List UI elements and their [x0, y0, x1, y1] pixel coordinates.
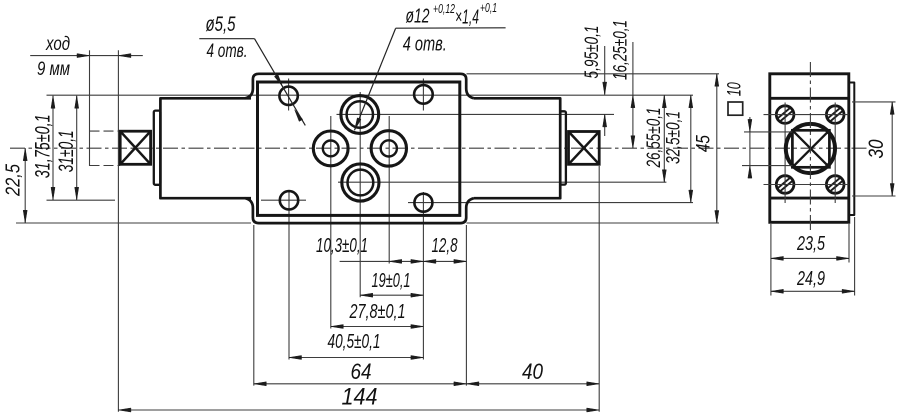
svg-text:4 отв.: 4 отв. [403, 34, 447, 56]
svg-text:31±0,1: 31±0,1 [55, 130, 78, 172]
svg-text:40,5±0,1: 40,5±0,1 [328, 331, 381, 353]
svg-text:144: 144 [342, 384, 378, 411]
svg-text:32,5±0,1: 32,5±0,1 [663, 111, 685, 164]
svg-text:9 мм: 9 мм [37, 58, 70, 80]
svg-text:31,75±0,1: 31,75±0,1 [31, 114, 55, 178]
svg-text:ø12: ø12 [406, 5, 430, 28]
svg-text:40: 40 [522, 359, 543, 384]
svg-text:4 отв.: 4 отв. [207, 40, 248, 62]
svg-text:23,5: 23,5 [796, 233, 825, 255]
svg-text:24,9: 24,9 [796, 268, 825, 290]
svg-text:12,8: 12,8 [432, 235, 459, 257]
svg-text:16,25±0,1: 16,25±0,1 [609, 20, 631, 80]
svg-text:22,5: 22,5 [2, 164, 25, 197]
svg-text:10,3±0,1: 10,3±0,1 [316, 235, 368, 257]
svg-text:45: 45 [692, 135, 714, 152]
svg-text:×1,4: ×1,4 [455, 6, 479, 29]
svg-text:10: 10 [724, 82, 746, 96]
svg-text:19±0,1: 19±0,1 [372, 270, 411, 292]
svg-text:27,8±0,1: 27,8±0,1 [349, 301, 406, 323]
svg-text:5,95±0,1: 5,95±0,1 [581, 26, 603, 79]
svg-text:26,55±0,1: 26,55±0,1 [643, 108, 665, 169]
svg-text:ход: ход [45, 33, 70, 55]
svg-text:+0,12: +0,12 [433, 1, 456, 16]
svg-text:64: 64 [351, 359, 372, 384]
svg-text:ø5,5: ø5,5 [206, 12, 237, 36]
svg-text:30: 30 [865, 139, 888, 158]
svg-text:+0,1: +0,1 [480, 0, 497, 15]
